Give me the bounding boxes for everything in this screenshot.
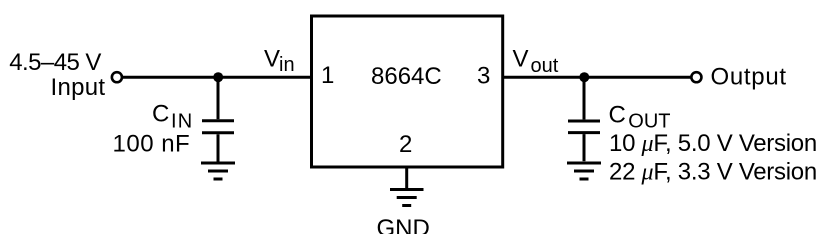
svg-text:GND: GND — [377, 215, 430, 234]
svg-text:IN: IN — [171, 111, 193, 133]
svg-text:2: 2 — [399, 131, 412, 158]
IC U1 8664C regulator box — [312, 16, 503, 167]
svg-text:V: V — [513, 46, 529, 73]
svg-text:out: out — [531, 55, 559, 77]
svg-text:Output: Output — [711, 64, 787, 91]
wire pin 2 to ground — [405, 167, 408, 188]
input terminal — [112, 72, 122, 82]
svg-text:4.5–45 V: 4.5–45 V — [9, 49, 101, 76]
wire pin 3 to output — [503, 76, 691, 79]
svg-text:C: C — [609, 101, 626, 128]
svg-text:22 μF, 3.3 V Version: 22 μF, 3.3 V Version — [609, 158, 817, 185]
svg-text:V: V — [264, 46, 280, 73]
ground (input cap) — [201, 163, 235, 179]
svg-text:8664C: 8664C — [371, 63, 442, 90]
svg-text:10 μF, 5.0 V Version: 10 μF, 5.0 V Version — [609, 130, 817, 157]
svg-text:100 nF: 100 nF — [113, 131, 191, 158]
svg-text:1: 1 — [321, 62, 334, 89]
node output junction — [579, 72, 589, 82]
capacitor COUT — [568, 77, 600, 161]
output terminal — [691, 72, 701, 82]
capacitor CIN — [202, 77, 234, 161]
node input junction — [213, 72, 223, 82]
svg-text:Input: Input — [51, 74, 106, 101]
ground (pin 2) — [390, 190, 424, 206]
wire input to pin 1 — [122, 76, 311, 79]
svg-text:C: C — [152, 101, 169, 128]
svg-text:3: 3 — [477, 63, 490, 90]
ground (output cap) — [567, 163, 601, 179]
svg-text:in: in — [279, 54, 295, 76]
